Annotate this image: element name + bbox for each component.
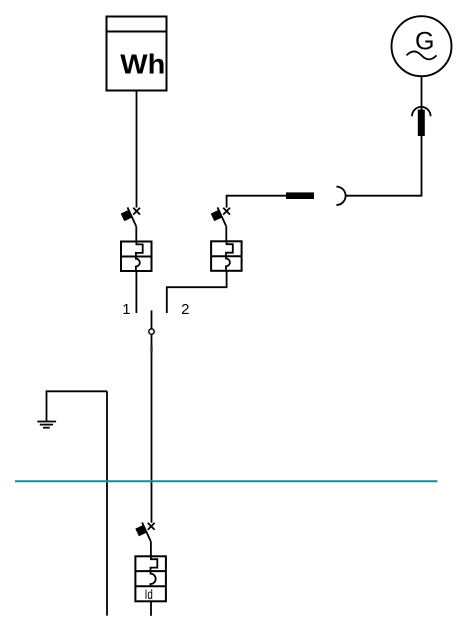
circuit breaker Q1: [121, 207, 140, 226]
wire pivot down to breaker Q3: [151, 334, 153, 522]
svg-text:G: G: [415, 27, 434, 55]
wire Q1 to drawout box: [135, 226, 137, 241]
wire terminal 1: [135, 271, 137, 313]
svg-text:Wh: Wh: [120, 49, 165, 80]
circuit breaker Q2: [211, 207, 230, 226]
changeover switch blade: [151, 310, 153, 329]
switch pivot: [149, 329, 154, 334]
svg-text:Id: Id: [145, 587, 153, 602]
energy meter Wh: [107, 17, 167, 91]
wire Q2 to drawout box: [225, 226, 227, 241]
wire plug down and left to socket: [346, 136, 422, 196]
wire Q3 to differential box: [150, 541, 152, 556]
wire joint overlap: [150, 346, 153, 353]
generator G: [392, 16, 452, 76]
svg-text:2: 2: [181, 301, 189, 318]
wire terminal 2 from right branch: [167, 271, 227, 313]
socket female connector horizontal: [336, 187, 345, 205]
svg-text:1: 1: [122, 301, 130, 318]
circuit breaker Q3: [135, 523, 154, 542]
boundary line teal: [15, 480, 437, 482]
drawout contact box left: [121, 242, 152, 272]
ground branch wire: [47, 391, 108, 421]
riser wire to lower edge: [106, 391, 108, 615]
plug male connector vertical: [418, 110, 425, 136]
wire below differential box: [150, 601, 152, 616]
differential relay box Id: [135, 556, 166, 601]
wire Wh meter to breaker Q1: [136, 91, 138, 208]
generator sine wave: [407, 51, 437, 59]
wire generator to connector: [421, 76, 423, 110]
earth ground symbol: [37, 422, 56, 428]
plug male connector horizontal: [286, 192, 314, 199]
drawout contact box right: [211, 241, 242, 270]
socket female connector vertical: [412, 107, 431, 116]
wire plug to breaker Q2 branch: [227, 196, 286, 208]
